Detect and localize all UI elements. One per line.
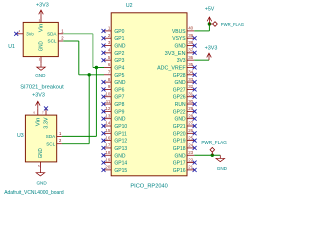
svg-text:11: 11 [106,99,111,104]
wire SCL: U1 SCL to corner [63,40,79,42]
svg-text:GP13: GP13 [114,146,127,152]
no-connect X on U2 pin 10 [102,95,106,99]
no-connect X on U2 pin 4 [102,51,106,55]
no-connect X on U2 pin 31 [193,95,197,99]
svg-text:37: 37 [188,48,193,53]
svg-text:GP11: GP11 [114,131,127,137]
no-connect X on U2 pin 5 [102,58,106,62]
svg-text:+3V3: +3V3 [36,2,49,8]
U2 pin 35 ADC_VREF (right) [157,62,194,71]
wire VBUS: vertical up to +5V [208,24,210,31]
svg-text:3: 3 [39,58,41,62]
svg-text:GND: GND [174,117,186,123]
U2 pin 13 GND (left) [104,113,126,122]
no-connect X on U2 pin 37 [193,51,197,55]
svg-text:U1: U1 [8,44,15,50]
junction at +5V node [208,22,211,25]
U3 pin 1 SDA [46,131,62,140]
svg-text:GND: GND [38,148,44,158]
no-connect X on U2 pin 29 [193,109,197,113]
svg-text:1: 1 [61,28,64,33]
svg-text:2: 2 [59,138,62,143]
svg-text:GP21: GP21 [173,124,186,130]
svg-text:26: 26 [188,128,193,133]
svg-text:Vin: Vin [39,23,45,32]
svg-text:GP12: GP12 [114,139,127,145]
power flag PWR_FLAG at GND node [201,140,227,155]
svg-text:17: 17 [105,143,110,148]
svg-text:GND: GND [174,153,186,159]
svg-text:15: 15 [105,128,110,133]
svg-text:28: 28 [188,113,193,118]
U1 pin Vin (top) [39,17,45,32]
U3 value label Adafruit_VCNL4000_board [4,190,64,196]
U3 reference designator [17,133,24,139]
IC U1 SI7021 breakout body [23,22,58,56]
svg-text:23: 23 [188,150,193,155]
svg-text:22: 22 [188,157,193,162]
U2 pin 38 GND (right) [174,40,194,49]
svg-text:10: 10 [105,91,110,96]
U1 reference designator [8,44,15,50]
U3 pin 2 SCL [46,138,62,147]
U2 pin 1 GP0 (left) [104,26,125,35]
svg-text:2: 2 [61,36,64,41]
no-connect X on U2 pin 24 [193,146,197,150]
svg-text:SDA: SDA [47,31,57,37]
U2 pin 26 GP20 (right) [173,128,194,137]
U2 pin 32 GP27 (right) [173,84,194,93]
svg-text:GP26: GP26 [173,95,186,101]
no-connect X on U2 pin 39 [193,36,197,40]
power symbol +3V3 above U3 [32,93,45,109]
svg-text:12: 12 [105,106,110,111]
svg-text:36: 36 [188,55,193,60]
U2 pin 24 GP18 (right) [173,143,194,152]
svg-text:5: 5 [39,18,41,22]
U1 pin 1 SDA [47,28,64,37]
wire GND: pin 23 to ground [194,154,220,156]
U2 pin 3 GND (left) [104,40,126,49]
svg-text:GP28: GP28 [173,73,186,79]
svg-text:Adafruit_VCNL4000_board: Adafruit_VCNL4000_board [4,190,64,196]
no-connect X on U2 pin 21 [193,168,197,172]
svg-text:GND: GND [217,166,228,171]
U1 pin 2 SCL [48,36,65,45]
svg-text:5: 5 [108,55,111,60]
U2 pin 6 GP4 (left) [104,62,125,71]
svg-text:39: 39 [188,33,193,38]
wire SCL: vertical down to U3 [88,75,90,144]
no-connect X on U2 pin 8 [102,80,106,84]
svg-text:7: 7 [42,111,44,115]
U2 pin 31 GP26 (right) [173,91,194,100]
svg-text:SI7021_breakout: SI7021_breakout [20,85,64,91]
wire SDA: horizontal into U3 SDA [62,135,97,137]
circuit schematic: RP2040 Pico with I2C sensor breakouts [0,0,250,202]
svg-text:3V3: 3V3 [177,58,186,64]
U2 pin 12 GP9 (left) [104,106,125,115]
no-connect X on U2 pin 19 [102,161,106,165]
wire SCL: horizontal into U3 SCL [62,143,89,145]
svg-text:3Vo: 3Vo [26,31,34,37]
svg-text:GP17: GP17 [173,161,186,167]
U2 pin 17 GP13 (left) [104,143,127,152]
svg-text:GP7: GP7 [114,95,124,101]
U2 pin 21 GP16 (right) [173,165,194,174]
no-connect X on U2 pin 18 [102,153,106,157]
svg-text:GND: GND [174,44,186,50]
junction at GND node [211,154,214,157]
U2 pin 11 GP8 (left) [104,99,125,108]
U2 pin 36 3V3 (right) [177,55,195,64]
svg-text:8: 8 [108,77,111,82]
ground symbol below U3 [36,169,47,185]
svg-text:GND: GND [36,180,47,185]
svg-text:19: 19 [105,157,110,162]
U2 pin 37 3V3_EN (right) [165,48,195,57]
svg-text:13: 13 [105,113,110,118]
U2 pin 34 GP28 (right) [173,69,194,78]
svg-text:3V3_EN: 3V3_EN [165,51,186,57]
svg-text:24: 24 [188,143,193,148]
no-connect X on U2 pin 20 [102,168,106,172]
U2 pin 19 GP14 (left) [104,157,127,166]
svg-text:GND: GND [114,80,126,86]
U1 value label SI7021_breakout [20,85,64,91]
svg-text:3: 3 [108,40,111,45]
no-connect X on U2 pin 27 [193,124,197,128]
svg-text:GP27: GP27 [173,87,186,93]
svg-text:SCL: SCL [48,39,57,45]
svg-text:GP5: GP5 [114,73,124,79]
svg-text:31: 31 [188,91,193,96]
wire SDA: horizontal into U2 GP4 [93,66,104,68]
svg-text:+3V3: +3V3 [205,45,218,51]
svg-text:35: 35 [188,62,193,67]
svg-text:GP4: GP4 [114,65,124,71]
ground symbol below U1 [35,63,46,78]
svg-text:+3V3: +3V3 [32,93,45,99]
U1 pin 3Vo (left) [16,29,34,38]
svg-text:GP1: GP1 [114,36,124,42]
svg-text:PWR_FLAG: PWR_FLAG [201,140,227,146]
U2 reference designator [126,3,133,9]
svg-text:GP2: GP2 [114,51,124,57]
wire SDA: vertical drop to GP4 row [92,34,94,68]
svg-text:GND: GND [114,117,126,123]
svg-text:GP6: GP6 [114,87,124,93]
svg-text:5: 5 [38,164,40,168]
svg-text:14: 14 [105,121,110,126]
wire SCL: horizontal into U2 GP5 [79,74,104,76]
svg-text:16: 16 [105,135,110,140]
U2 pin 14 GP10 (left) [104,121,127,130]
svg-text:ADC_VREF: ADC_VREF [157,65,186,71]
svg-text:6: 6 [34,111,36,115]
svg-text:GP14: GP14 [114,161,127,167]
svg-text:9: 9 [108,84,111,89]
U2 pin 40 VBUS (right) [172,26,194,35]
no-connect X on U2 pin 35 [193,65,197,69]
U3 pin 3.3V (top) [42,108,49,128]
U2 pin 9 GP6 (left) [104,84,125,93]
U2 pin 23 GND (right) [174,150,194,159]
svg-text:GND: GND [114,153,126,159]
no-connect X on U2 pin 28 [193,117,197,121]
U2 pin 27 GP21 (right) [173,121,194,130]
no-connect X on U2 pin 25 [193,139,197,143]
svg-text:GP18: GP18 [173,146,186,152]
svg-text:GND: GND [39,41,45,51]
U2 pin 33 GND (right) [174,77,194,86]
IC U2 PICO_RP2040 body [111,13,187,176]
svg-text:3.3V: 3.3V [44,117,50,129]
no-connect X on U2 pin 26 [193,131,197,135]
U2 pin 8 GND (left) [104,77,126,86]
wire SDA: U1 SDA to corner [63,33,93,35]
no-connect X on U2 pin 17 [102,146,106,150]
svg-text:40: 40 [188,26,193,31]
svg-text:Vin: Vin [35,117,41,126]
U2 pin 15 GP11 (left) [104,128,127,137]
svg-text:+5V: +5V [205,7,215,13]
no-connect X on U3 pin 3.3V [44,106,48,110]
U2 pin 5 GP3 (left) [104,55,125,64]
U2 pin 22 GP17 (right) [173,157,194,166]
svg-text:7: 7 [108,69,111,74]
svg-text:1: 1 [59,131,62,136]
svg-text:25: 25 [188,135,193,140]
svg-text:GP15: GP15 [114,168,127,174]
junction SDA at GP4 row [95,66,98,69]
no-connect X on U2 pin 14 [102,124,106,128]
no-connect X on U2 pin 13 [102,117,106,121]
svg-text:21: 21 [188,165,193,170]
no-connect X on U2 pin 12 [102,109,106,113]
junction SCL at GP5 row [88,73,91,76]
svg-text:GP0: GP0 [114,29,124,35]
U2 pin 7 GP5 (left) [104,69,125,78]
U2 pin 16 GP12 (left) [104,135,127,144]
svg-text:1: 1 [108,26,111,31]
power symbol +3V3 at pin 36 [205,45,218,60]
svg-text:33: 33 [188,77,193,82]
U2 pin 25 GP19 (right) [173,135,194,144]
wire VBUS: pin 40 to corner [194,30,209,32]
svg-text:VBUS: VBUS [172,29,186,35]
U2 pin 39 VSYS (right) [172,33,194,42]
no-connect X on U2 pin 34 [193,73,197,77]
no-connect X on U2 pin 11 [102,102,106,106]
svg-text:GND: GND [114,44,126,50]
svg-text:34: 34 [188,69,193,74]
svg-text:27: 27 [188,121,193,126]
svg-text:RUN: RUN [175,102,186,108]
svg-text:GND: GND [35,73,46,78]
svg-text:38: 38 [188,40,193,45]
no-connect X on U2 pin 3 [102,44,106,48]
svg-text:GP3: GP3 [114,58,124,64]
svg-text:GP9: GP9 [114,109,124,115]
U2 pin 30 RUN (right) [175,99,194,108]
svg-text:SCL: SCL [46,141,55,147]
no-connect X on U1 pin 3Vo [14,32,18,36]
U2 value label PICO_RP2040 [130,183,168,189]
svg-text:20: 20 [105,165,110,170]
svg-text:32: 32 [188,84,193,89]
svg-text:GP8: GP8 [114,102,124,108]
IC U3 VCNL4000 body [25,115,56,162]
svg-text:29: 29 [188,106,193,111]
power symbol +3V3 above U1 [36,2,49,17]
power flag PWR_FLAG at +5V node [209,22,244,28]
no-connect X on U2 pin 38 [193,44,197,48]
svg-text:GP16: GP16 [173,168,186,174]
svg-text:18: 18 [105,150,110,155]
U2 pin 10 GP7 (left) [104,91,125,100]
U2 pin 4 GP2 (left) [104,48,125,57]
svg-text:2: 2 [108,33,111,38]
U2 pin 2 GP1 (left) [104,33,125,42]
svg-text:U2: U2 [126,3,133,9]
no-connect X on U2 pin 32 [193,87,197,91]
ground symbol at pin 23 [216,155,228,171]
svg-text:30: 30 [188,99,193,104]
svg-text:GP10: GP10 [114,124,127,130]
svg-text:PICO_RP2040: PICO_RP2040 [130,183,168,189]
wire SDA: vertical down to U3 [95,67,97,136]
power symbol +5V [205,7,215,25]
U2 pin 20 GP15 (left) [104,165,127,174]
svg-text:VSYS: VSYS [172,36,186,42]
no-connect X on U2 pin 15 [102,131,106,135]
no-connect X on U2 pin 2 [102,36,106,40]
U1 pin GND (bottom) [39,41,45,63]
svg-text:SDA: SDA [46,134,56,140]
no-connect X on U2 pin 16 [102,139,106,143]
svg-text:4: 4 [19,29,21,33]
svg-text:U3: U3 [17,133,24,139]
no-connect X on U2 pin 9 [102,87,106,91]
U3 pin GND (bottom) [38,148,44,169]
svg-text:4: 4 [108,48,111,53]
svg-text:PWR_FLAG: PWR_FLAG [221,22,244,28]
no-connect X on U2 pin 22 [193,161,197,165]
U2 pin 18 GND (left) [104,150,126,159]
U3 pin Vin (top) [34,108,42,126]
wire 3V3: pin 36 to +3V3 [194,59,209,61]
U2 pin 28 GND (right) [174,113,194,122]
no-connect X on U2 pin 30 [193,102,197,106]
svg-text:6: 6 [108,62,111,67]
U2 pin 29 GP22 (right) [173,106,194,115]
svg-text:GP19: GP19 [173,139,186,145]
no-connect X on U2 pin 33 [193,80,197,84]
svg-text:GP22: GP22 [173,109,186,115]
svg-text:GND: GND [174,80,186,86]
no-connect X on U2 pin 1 [102,29,106,33]
svg-text:GP20: GP20 [173,131,186,137]
wire SCL: vertical drop to GP5 row [78,41,80,75]
